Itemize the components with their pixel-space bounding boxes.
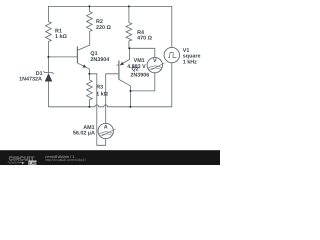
svg-text:220 Ω: 220 Ω [96,25,111,31]
svg-text:R3: R3 [96,85,103,91]
svg-text:4.883 V: 4.883 V [127,64,146,70]
svg-text:V: V [153,58,157,64]
svg-text:1 kΩ: 1 kΩ [55,34,67,40]
svg-text:2N3906: 2N3906 [130,73,149,79]
svg-text:1 kΩ: 1 kΩ [96,91,108,97]
svg-text:A: A [104,124,108,130]
svg-text:2N3904: 2N3904 [90,57,109,63]
svg-text:470 Ω: 470 Ω [137,36,152,42]
svg-text:1N4732A: 1N4732A [19,76,42,82]
svg-text:56.02 µA: 56.02 µA [73,131,95,137]
svg-text:LAB: LAB [29,161,37,165]
svg-text:1 kHz: 1 kHz [183,59,197,65]
